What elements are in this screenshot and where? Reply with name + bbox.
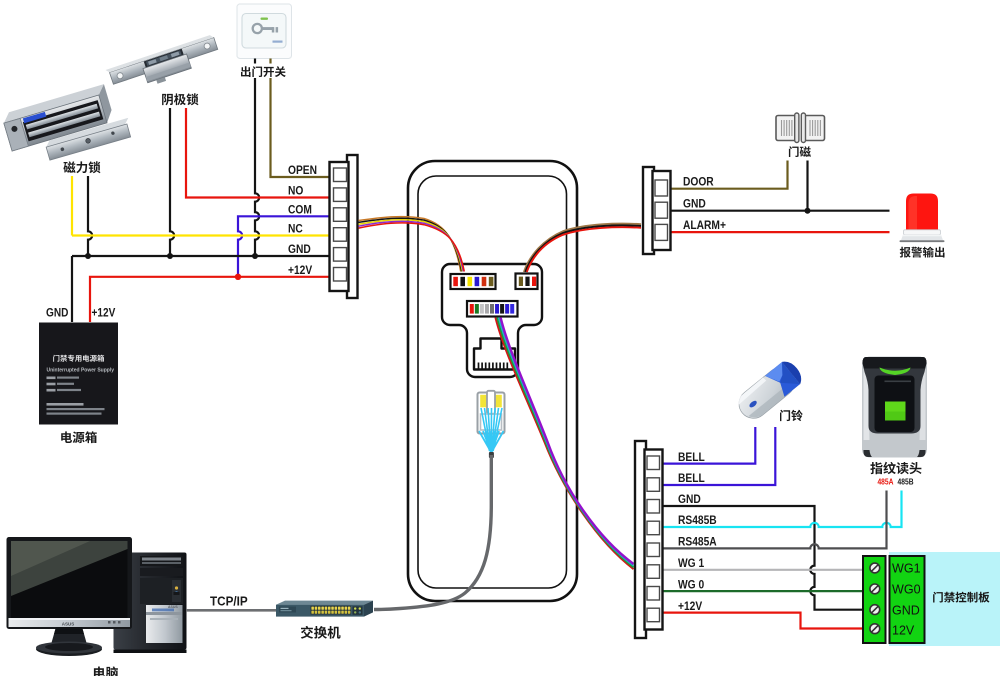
svg-text:GND: GND [678, 493, 701, 506]
controller label block [890, 556, 925, 643]
wire maglock yellow to NC [71, 176, 73, 236]
electric strike 阴极锁 [106, 34, 223, 98]
svg-text:+12V: +12V [288, 264, 313, 277]
plug wires cyan [481, 408, 502, 451]
wire exit button black to GND [255, 59, 259, 257]
RJ45 plug [478, 391, 505, 434]
wire maglock black to GND [88, 176, 92, 256]
svg-text:DOOR: DOOR [683, 176, 714, 189]
bell wires blue [664, 427, 756, 464]
wire GND black to controller [664, 506, 864, 610]
svg-text:WG1: WG1 [892, 560, 921, 575]
door terminal block [643, 167, 654, 254]
cable bundle reader to door block [524, 224, 641, 272]
wire NO red from strike lock [186, 108, 330, 198]
label 交换机 [301, 626, 341, 639]
wire strike black to GND [170, 108, 174, 256]
wire WG0 green [664, 590, 864, 592]
svg-text:OPEN: OPEN [288, 164, 317, 177]
multicolor cable bundle [495, 318, 633, 570]
svg-text:GND: GND [683, 198, 706, 211]
wire +12V red bus [90, 277, 330, 322]
svg-text:BELL: BELL [678, 472, 705, 485]
svg-text:485B: 485B [898, 477, 914, 487]
wire COM blue [238, 216, 330, 276]
svg-text:BELL: BELL [678, 451, 705, 464]
label 电脑 [94, 666, 118, 676]
wire TCP/IP gray computer to switch [186, 609, 276, 612]
junction dots on GND [85, 253, 91, 259]
wire ALARM+ red [670, 231, 890, 233]
controller screw terminal [863, 556, 886, 643]
computer 电脑 [114, 553, 187, 654]
junction dot +12V/COM [235, 274, 241, 280]
wire NC yellow [72, 234, 330, 236]
svg-text:COM: COM [288, 204, 312, 217]
wire GND black to alarm [670, 161, 890, 211]
wire GND black bus [72, 256, 330, 322]
label 电源箱 [61, 431, 97, 443]
svg-text:GND: GND [892, 602, 920, 617]
label 门禁控制板 [933, 592, 989, 603]
svg-text:GND: GND [288, 243, 311, 256]
svg-text:WG 1: WG 1 [678, 557, 704, 570]
alarm beacon 报警输出 [900, 194, 945, 243]
wire RS485B cyan [664, 491, 902, 528]
svg-text:WG 0: WG 0 [678, 579, 704, 592]
svg-text:WG0: WG0 [892, 581, 921, 596]
wire RS485A dark [664, 491, 887, 549]
exit button 出门开关 [237, 4, 292, 59]
gray network cable [489, 452, 494, 458]
reader wiring plate [442, 264, 542, 377]
label 门铃 [780, 410, 803, 421]
right pin header [516, 274, 538, 290]
fingerprint reader 指纹读头 [862, 357, 927, 458]
svg-text:RS485B: RS485B [678, 514, 717, 527]
wire DOOR olive [670, 161, 788, 189]
label 指纹读头 [870, 462, 921, 474]
label 阴极锁 [162, 93, 198, 105]
wire WG1 light gray [664, 569, 864, 571]
label 出门开关 [238, 64, 288, 79]
network switch 交换机 [276, 601, 373, 617]
svg-text:ASUS: ASUS [168, 605, 178, 609]
svg-text:ASUS: ASUS [62, 622, 75, 627]
svg-text:TCP/IP: TCP/IP [210, 594, 248, 609]
door magnet 门磁 [776, 113, 825, 143]
left pin header [451, 274, 496, 289]
access reader outline [408, 161, 577, 601]
svg-text:12V: 12V [892, 622, 915, 637]
svg-text:Uninterrupted Power Supply: Uninterrupted Power Supply [47, 368, 115, 374]
svg-text:RS485A: RS485A [678, 536, 717, 549]
svg-text:+12V: +12V [92, 307, 116, 320]
svg-text:NC: NC [288, 223, 303, 236]
label 磁力锁 [63, 161, 100, 173]
svg-text:ALARM+: ALARM+ [683, 219, 726, 232]
RJ45 socket outline [474, 339, 515, 370]
left terminal block [347, 155, 358, 298]
wire +12V red to controller [664, 613, 864, 629]
maglock 磁力锁 [1, 84, 114, 151]
doorbell 门铃 [733, 357, 806, 424]
svg-text:GND: GND [46, 307, 68, 320]
label 报警输出 [900, 247, 945, 258]
wire OPEN olive from exit button [271, 59, 330, 178]
controller board 门禁控制板 [889, 552, 1000, 646]
bottom right terminal block [635, 441, 646, 638]
svg-text:NO: NO [288, 185, 304, 198]
svg-text:+12V: +12V [678, 600, 703, 613]
svg-text:485A: 485A [877, 477, 894, 487]
cable bundle left block to reader [359, 217, 461, 272]
power box 电源箱 [39, 323, 118, 425]
middle pin header [467, 301, 518, 317]
label 门磁 [789, 146, 811, 157]
cyan fan [479, 431, 504, 453]
